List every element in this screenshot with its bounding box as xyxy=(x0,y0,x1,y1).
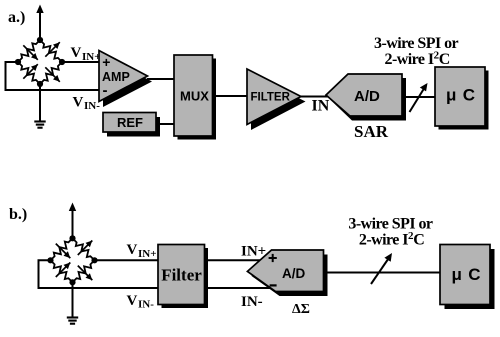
bridge-b node top xyxy=(69,235,75,241)
bridge-b resistor R3 bottom-left xyxy=(51,260,73,282)
label VIN+ (a) xyxy=(71,45,101,63)
svg-text:V: V xyxy=(127,242,138,258)
wire VIN+ (bridge a right node to AMP + input) xyxy=(62,61,104,63)
svg-text:b.): b.) xyxy=(9,206,27,223)
svg-text:-: - xyxy=(103,82,108,99)
label 3-wire SPI or / 2-wire I2C (a) xyxy=(374,35,459,68)
bus slash arrow (b) xyxy=(371,253,392,284)
bridge-b resistor R4 bottom-right xyxy=(73,260,95,282)
svg-text:Filter: Filter xyxy=(161,266,202,285)
bridge-b node right xyxy=(91,257,97,263)
wire FILTER to A/D xyxy=(300,96,330,98)
bus slash arrow (a) xyxy=(410,83,428,112)
svg-text:IN-: IN- xyxy=(241,294,263,310)
label VIN- (b) xyxy=(127,293,155,311)
svg-text:MUX: MUX xyxy=(180,89,209,104)
wire Filter to A/D lower (IN-) xyxy=(204,287,272,289)
bridge-a node left xyxy=(15,59,21,65)
filter triangle FILTER xyxy=(247,69,306,130)
svg-text:FILTER: FILTER xyxy=(251,91,291,103)
block MUX xyxy=(174,55,216,140)
bridge-a resistor R2 top-right xyxy=(40,40,62,62)
bridge-b node left xyxy=(47,257,53,263)
svg-text:C: C xyxy=(413,232,425,249)
svg-text:V: V xyxy=(73,95,84,111)
svg-text:ΔΣ: ΔΣ xyxy=(292,302,310,317)
adc A/D (delta-sigma) xyxy=(247,250,327,296)
bridge-b node bottom xyxy=(69,279,75,285)
microcontroller uC (a) xyxy=(435,67,489,130)
svg-text:REF: REF xyxy=(117,115,143,130)
excitation arrow (bridge a) xyxy=(36,5,43,41)
svg-text:2-wire I: 2-wire I xyxy=(385,51,434,68)
label 3-wire SPI or / 2-wire I2C (b) xyxy=(348,216,433,249)
wire bridge-b left node loop to Filter lower input xyxy=(39,260,161,288)
bridge-b resistor R1 top-left xyxy=(51,238,73,260)
bridge-a resistor R3 bottom-left xyxy=(18,62,40,84)
microcontroller uC (b) xyxy=(440,245,495,310)
svg-text:SAR: SAR xyxy=(354,122,389,141)
svg-text:IN-: IN- xyxy=(84,100,100,112)
svg-text:IN: IN xyxy=(312,98,330,115)
label VIN- (a) xyxy=(73,95,101,113)
wire VIN+ (bridge b right node to Filter) xyxy=(95,259,161,261)
svg-text:A/D: A/D xyxy=(354,88,380,105)
svg-text:a.): a.) xyxy=(8,9,25,26)
adc A/D (SAR) xyxy=(326,74,406,121)
ground (bridge b) xyxy=(67,318,78,324)
svg-text:A/D: A/D xyxy=(282,266,306,281)
wire bridge-b bottom node to ground xyxy=(72,282,74,317)
svg-text:C: C xyxy=(439,51,451,68)
ground (bridge a) xyxy=(34,122,45,128)
svg-text:IN-: IN- xyxy=(138,299,154,311)
wire Filter to A/D upper (IN+) xyxy=(204,259,262,261)
svg-text:2-wire I: 2-wire I xyxy=(359,232,408,249)
block Filter xyxy=(158,245,208,309)
label VIN+ (b) xyxy=(127,242,157,260)
wire AMP output to MUX xyxy=(147,78,175,80)
wire bridge-a bottom node to ground xyxy=(39,84,41,121)
svg-text:3-wire SPI or: 3-wire SPI or xyxy=(374,35,459,52)
svg-text:IN+: IN+ xyxy=(138,248,157,260)
bridge-a node top xyxy=(37,37,43,43)
bridge-a node right xyxy=(59,59,65,65)
block REF xyxy=(103,113,160,137)
svg-text:+: + xyxy=(102,54,110,70)
op-amp AMP U1 xyxy=(99,51,152,108)
svg-text:μ C: μ C xyxy=(452,265,482,284)
svg-text:3-wire SPI or: 3-wire SPI or xyxy=(348,216,433,233)
excitation arrow (bridge b) xyxy=(69,203,76,239)
svg-text:V: V xyxy=(71,45,82,61)
wire bridge-a left node loop to AMP - input xyxy=(6,62,105,90)
svg-text:V: V xyxy=(127,293,138,309)
wire MUX to FILTER xyxy=(213,95,248,97)
bridge-b resistor R2 top-right xyxy=(73,238,95,260)
svg-text:IN+: IN+ xyxy=(82,51,101,63)
wire A/D to uC (a) xyxy=(402,96,436,98)
svg-text:μ C: μ C xyxy=(446,86,476,105)
bridge-a node bottom xyxy=(37,81,43,87)
wire A/D to uC (b) xyxy=(323,272,441,274)
wire REF to MUX xyxy=(150,123,175,125)
bridge-a resistor R4 bottom-right xyxy=(40,62,62,84)
bridge-a resistor R1 top-left xyxy=(18,40,40,62)
